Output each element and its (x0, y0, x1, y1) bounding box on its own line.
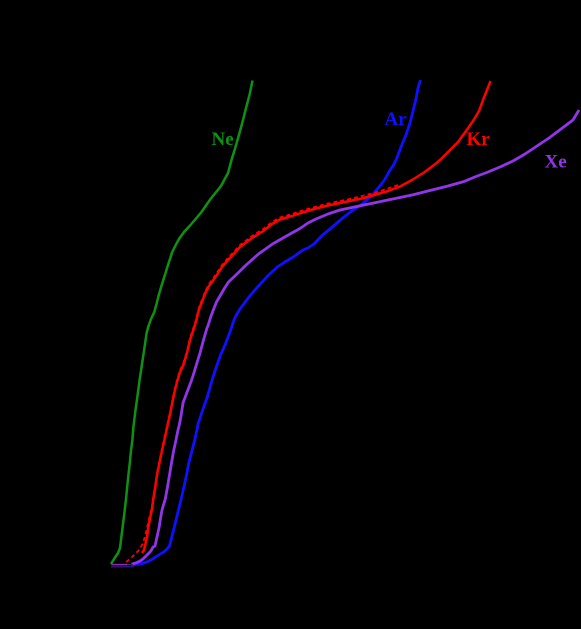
svg-text:Kr: Kr (467, 129, 491, 150)
curve Ne (green) (111, 81, 253, 565)
curve Ar (blue) (132, 80, 421, 565)
svg-text:Ar: Ar (385, 109, 408, 130)
curve Ar dark tail (111, 566, 122, 568)
curve Kr solid (red) (142, 81, 491, 553)
curve Xe thin tail (111, 564, 127, 566)
svg-text:Xe: Xe (545, 152, 567, 173)
curve Kr dashed (red) (125, 185, 398, 564)
svg-text:Ne: Ne (212, 129, 234, 150)
curve Xe (purple) (132, 110, 580, 564)
